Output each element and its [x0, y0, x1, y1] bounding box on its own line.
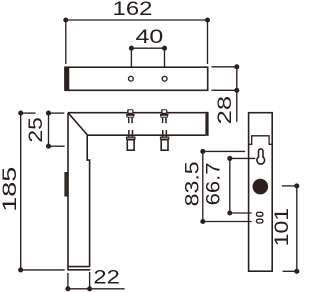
side view top channel — [249, 136, 273, 145]
front view L-shaped fixture outline — [65, 112, 209, 270]
svg-text:101: 101 — [271, 208, 293, 247]
svg-text:83.5: 83.5 — [182, 161, 204, 206]
front view corner diagonal — [68, 113, 87, 135]
dimension 22 — [65, 272, 124, 291]
dimension 40 — [129, 46, 167, 67]
svg-text:22: 22 — [93, 267, 120, 289]
svg-text:162: 162 — [113, 0, 153, 20]
top view mounting hole right — [162, 76, 167, 81]
svg-text:185: 185 — [0, 167, 21, 212]
front view arm right end cap — [205, 112, 208, 136]
top view mounting hole left — [129, 76, 134, 81]
side view keyhole slot — [257, 149, 265, 164]
mounting clamp bottom-left — [126, 130, 136, 150]
dimension 28 — [212, 64, 240, 122]
dimension 162 — [63, 17, 210, 64]
svg-text:28: 28 — [214, 96, 236, 125]
side view knockout black circle — [252, 179, 268, 195]
mounting clamp top-left — [126, 109, 135, 123]
side view screw slot lower — [256, 219, 263, 223]
mounting clamp top-right — [160, 109, 169, 123]
svg-text:40: 40 — [136, 26, 164, 48]
front view left side tab — [65, 173, 68, 197]
dimension 185 — [18, 111, 65, 273]
side view plate body — [249, 113, 273, 272]
side view screw slot upper — [256, 212, 263, 216]
front view inner edge with step — [87, 135, 89, 267]
dimension 101 — [282, 183, 299, 274]
dimension 25 — [46, 111, 65, 149]
top view left end cap — [65, 67, 69, 90]
front view bottom cap — [68, 266, 90, 268]
top view bar body — [65, 67, 208, 90]
dimension 66.7 — [227, 156, 255, 216]
svg-text:66.7: 66.7 — [202, 162, 224, 205]
dimension 83.5 — [200, 149, 251, 224]
svg-text:25: 25 — [25, 117, 47, 143]
mounting clamp bottom-right — [160, 130, 170, 150]
